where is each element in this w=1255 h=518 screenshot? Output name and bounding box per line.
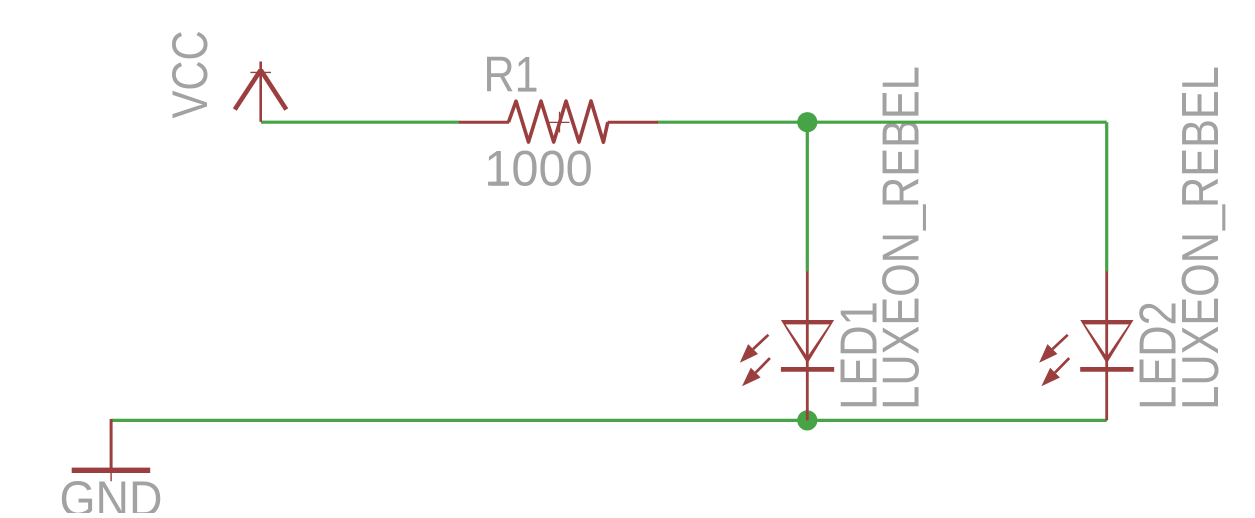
R1 right pin lead (608, 121, 658, 124)
LED1 triangle (anode) (781, 320, 834, 364)
svg-text:LUXEON: LUXEON (873, 232, 931, 410)
wire bottom rail: GND to LED1 node to LED2 (111, 419, 1107, 422)
VCC origin cross (250, 71, 271, 73)
wire LED2 vertical drop (1105, 122, 1108, 271)
label LUXEON_REBEL (value of LED2, rotated) (1172, 66, 1230, 409)
LED2 triangle (anode) (1080, 320, 1133, 364)
R1 left pin lead (459, 121, 509, 124)
wire top rail left: VCC to R1 (261, 121, 460, 124)
LED1 emission arrow upper (740, 335, 769, 363)
label 1000 (value of R1) (484, 141, 593, 197)
svg-text:R1: R1 (484, 47, 539, 103)
resistor R1 (459, 101, 658, 142)
LED1 emission arrow lower (742, 358, 770, 386)
svg-text:LUXEON: LUXEON (1172, 232, 1230, 410)
label LED1 (name, rotated) (830, 301, 888, 409)
LED1 pin wire (806, 271, 809, 420)
GND bar (72, 468, 151, 473)
label R1 (name) (484, 47, 539, 103)
GND origin cross (101, 459, 121, 481)
VCC chevron left stroke (235, 70, 261, 110)
LED1 (740, 271, 834, 420)
LED2 emission arrow lower (1041, 358, 1069, 386)
wire LED1 vertical drop (806, 122, 809, 271)
svg-text:REBEL: REBEL (873, 66, 931, 208)
VCC pin line (259, 62, 262, 122)
ground symbol GND (72, 419, 151, 481)
label LUXEON_REBEL (value of LED1, rotated) (873, 66, 931, 409)
svg-text:1000: 1000 (484, 141, 593, 197)
junction top (node at R1/LED1/LED2) (797, 112, 817, 132)
svg-text:VCC: VCC (162, 30, 218, 118)
wire top rail right: R1 to LED1 node to LED2 drop (658, 121, 1107, 124)
LED2 cathode bar (1080, 367, 1133, 372)
R1 origin cross (549, 112, 569, 133)
svg-text:REBEL: REBEL (1172, 66, 1230, 208)
VCC chevron right stroke (261, 70, 287, 110)
LED2 (1039, 271, 1133, 420)
LED2 emission arrow upper (1039, 335, 1068, 363)
LED1 cathode bar (781, 367, 834, 372)
LED2 pin wire (1105, 271, 1108, 420)
supply symbol VCC (235, 62, 286, 122)
GND pin line (110, 419, 113, 471)
R1 zigzag body (509, 101, 608, 142)
junction bottom (node at GND rail/LED1) (797, 410, 817, 430)
